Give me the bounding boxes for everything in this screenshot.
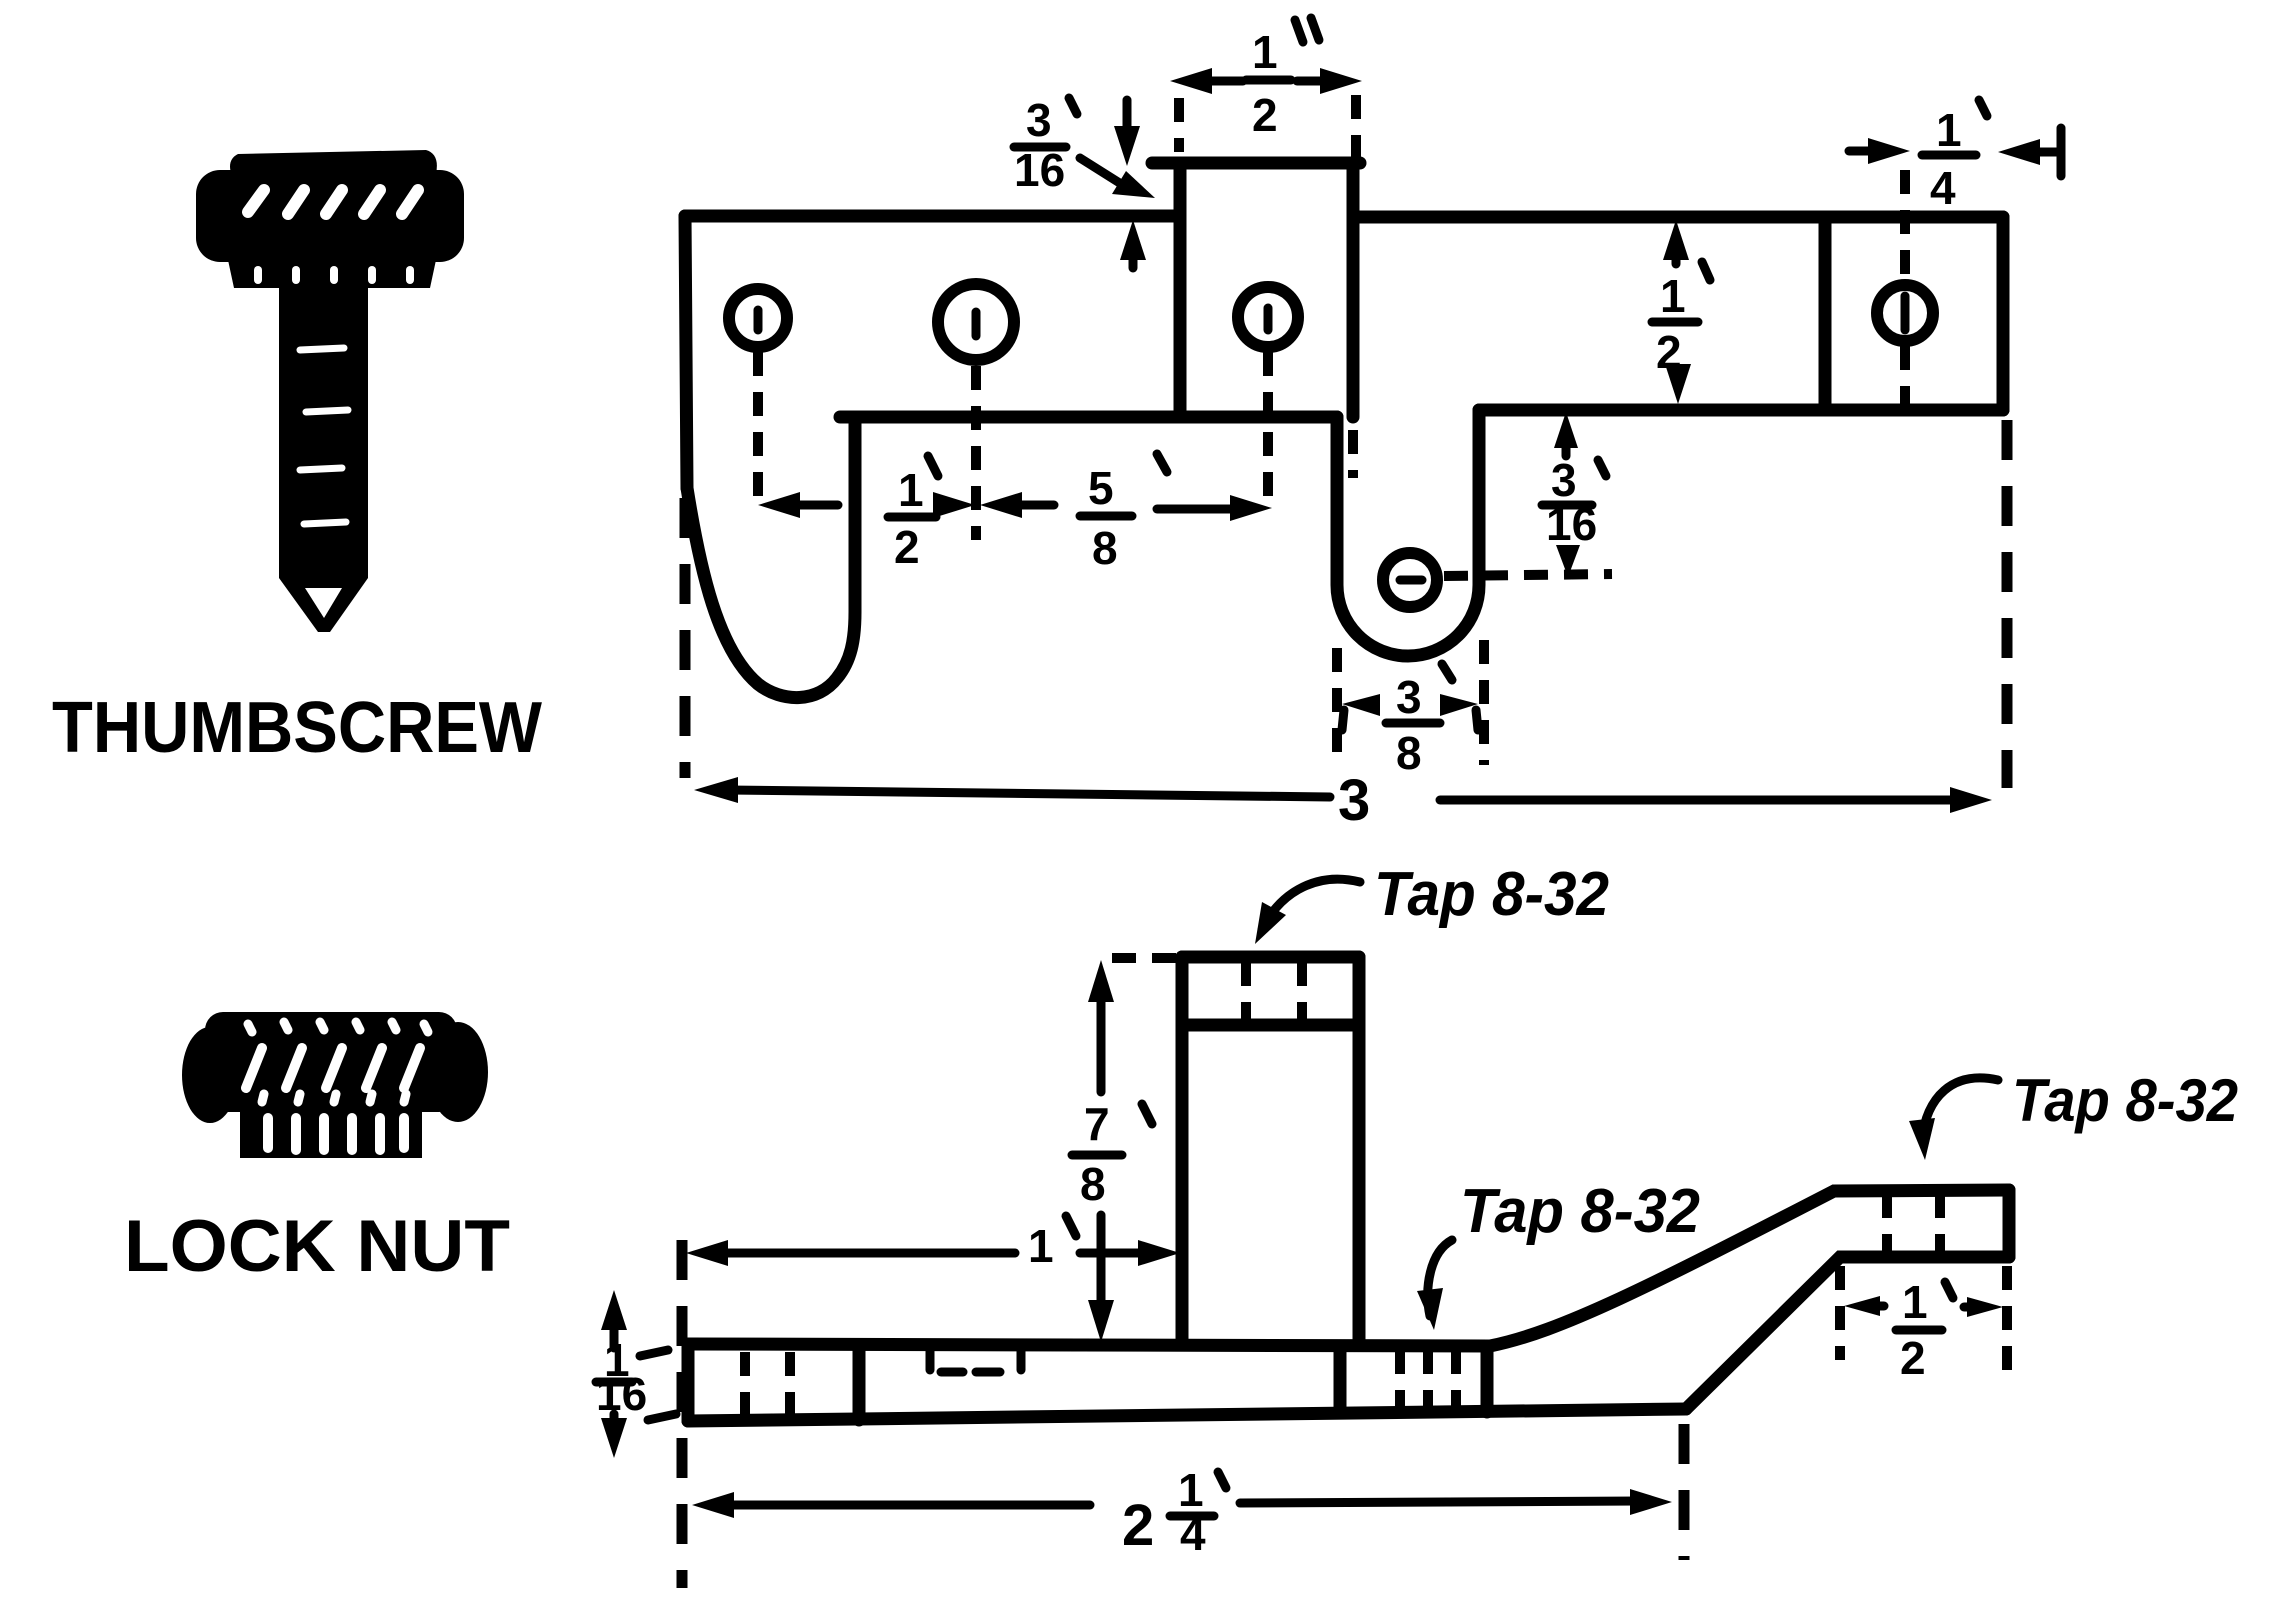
hole D centerline — [1900, 170, 1910, 280]
dimension 1/2 between holes A-B — [758, 456, 975, 573]
extension lines tongue width — [1332, 648, 1342, 762]
boss cap thread dashes — [1241, 962, 1251, 1023]
svg-text:4: 4 — [1930, 162, 1956, 214]
J-slot curve — [687, 417, 855, 698]
dimension 3/16 tongue hole offset — [1542, 412, 1606, 577]
dimension 3/8 tongue width — [1342, 664, 1478, 779]
hole D — [1877, 285, 1933, 341]
tab edge hidden line — [1348, 430, 1358, 478]
step right edge — [2003, 1190, 2016, 1257]
extension line right for dim 3 — [2002, 420, 2013, 788]
dimension 7/8 boss height — [1072, 958, 1178, 1342]
hole B — [938, 284, 1014, 360]
svg-text:3: 3 — [1338, 768, 1370, 833]
svg-text:1: 1 — [1028, 1220, 1054, 1272]
hole A — [729, 289, 787, 347]
extension line left for dim 3 — [680, 498, 691, 778]
svg-text:16: 16 — [596, 1368, 647, 1420]
dimension 1 inch boss offset — [686, 1216, 1180, 1272]
svg-text:3: 3 — [1026, 94, 1052, 146]
dimension 1/2 tab width — [1170, 18, 1362, 141]
side view outline — [596, 860, 2238, 1588]
strip inner verticals — [853, 1346, 866, 1420]
svg-text:1: 1 — [898, 464, 924, 516]
dimension 2 1/4 overall — [682, 1240, 1684, 1588]
plate plan view outline — [685, 18, 2061, 833]
dimension 3/16 tab height — [1014, 94, 1155, 268]
svg-text:16: 16 — [1546, 498, 1597, 550]
lock nut — [182, 1012, 488, 1158]
svg-text:2: 2 — [1900, 1332, 1926, 1384]
dimension 5/8 between holes B-C — [980, 454, 1272, 574]
svg-text:2: 2 — [894, 521, 920, 573]
svg-text:LOCK NUT: LOCK NUT — [124, 1206, 510, 1287]
U tongue — [1337, 410, 1479, 656]
right edge — [1997, 217, 2010, 410]
hidden hole dashed U — [926, 1348, 935, 1370]
svg-text:3: 3 — [1396, 671, 1422, 723]
hole B centerline — [971, 366, 981, 540]
dimension 1/2 step width — [1840, 1266, 2007, 1384]
extension lines tab width — [1174, 98, 1184, 152]
right section bottom edge — [1479, 404, 2003, 417]
svg-text:16: 16 — [1014, 144, 1065, 196]
hole C centerline — [1263, 352, 1273, 502]
top edge left of tab — [685, 210, 1180, 223]
base strip — [688, 1344, 1490, 1346]
leader arrow middle tap — [1428, 1240, 1452, 1316]
top edge right of tab — [1353, 211, 2003, 224]
left edge — [685, 216, 687, 488]
svg-text:Tap 8-32: Tap 8-32 — [2012, 1067, 2238, 1134]
dimension 3 overall length — [694, 768, 1992, 833]
svg-text:1: 1 — [1252, 26, 1278, 78]
svg-text:Tap 8-32: Tap 8-32 — [1460, 1177, 1700, 1246]
svg-text:THUMBSCREW: THUMBSCREW — [52, 688, 542, 768]
svg-text:7: 7 — [1084, 1098, 1110, 1150]
svg-text:Tap 8-32: Tap 8-32 — [1374, 860, 1609, 929]
svg-text:5: 5 — [1088, 462, 1114, 514]
svg-text:4: 4 — [1180, 1508, 1206, 1560]
lower ramp — [1686, 1257, 2009, 1409]
upper ramp curve — [1490, 1190, 2009, 1346]
svg-text:1: 1 — [1660, 270, 1686, 322]
dimension 1/16 strip thickness — [596, 1290, 676, 1458]
svg-text:1: 1 — [1902, 1276, 1928, 1328]
svg-text:2: 2 — [1252, 89, 1278, 141]
boss pillar — [1176, 957, 1189, 1344]
svg-text:1: 1 — [1936, 104, 1962, 156]
leader arrow right tap — [1922, 1078, 1998, 1140]
svg-text:8: 8 — [1092, 522, 1118, 574]
strip thread dashes middle — [1395, 1350, 1405, 1408]
boss cap line — [1182, 1019, 1359, 1032]
strip thread dashes left — [740, 1352, 750, 1415]
svg-text:8: 8 — [1080, 1158, 1106, 1210]
hole E in tongue — [1383, 553, 1437, 607]
leader arrow top tap — [1262, 879, 1360, 930]
dimension 1/4 right end — [1849, 100, 2061, 214]
step thread dashes — [1882, 1194, 1892, 1254]
hole A centerline — [753, 352, 763, 500]
dimension 1/2 right section height — [1652, 220, 1710, 404]
raised tab rectangle — [1152, 157, 1360, 170]
thumbscrew — [196, 150, 464, 632]
hole E centerline — [1444, 574, 1612, 576]
fold line right section — [1819, 217, 1832, 410]
svg-text:8: 8 — [1396, 727, 1422, 779]
middle bottom edge — [840, 411, 1337, 424]
svg-text:2: 2 — [1122, 1493, 1154, 1558]
hole C — [1238, 287, 1298, 347]
